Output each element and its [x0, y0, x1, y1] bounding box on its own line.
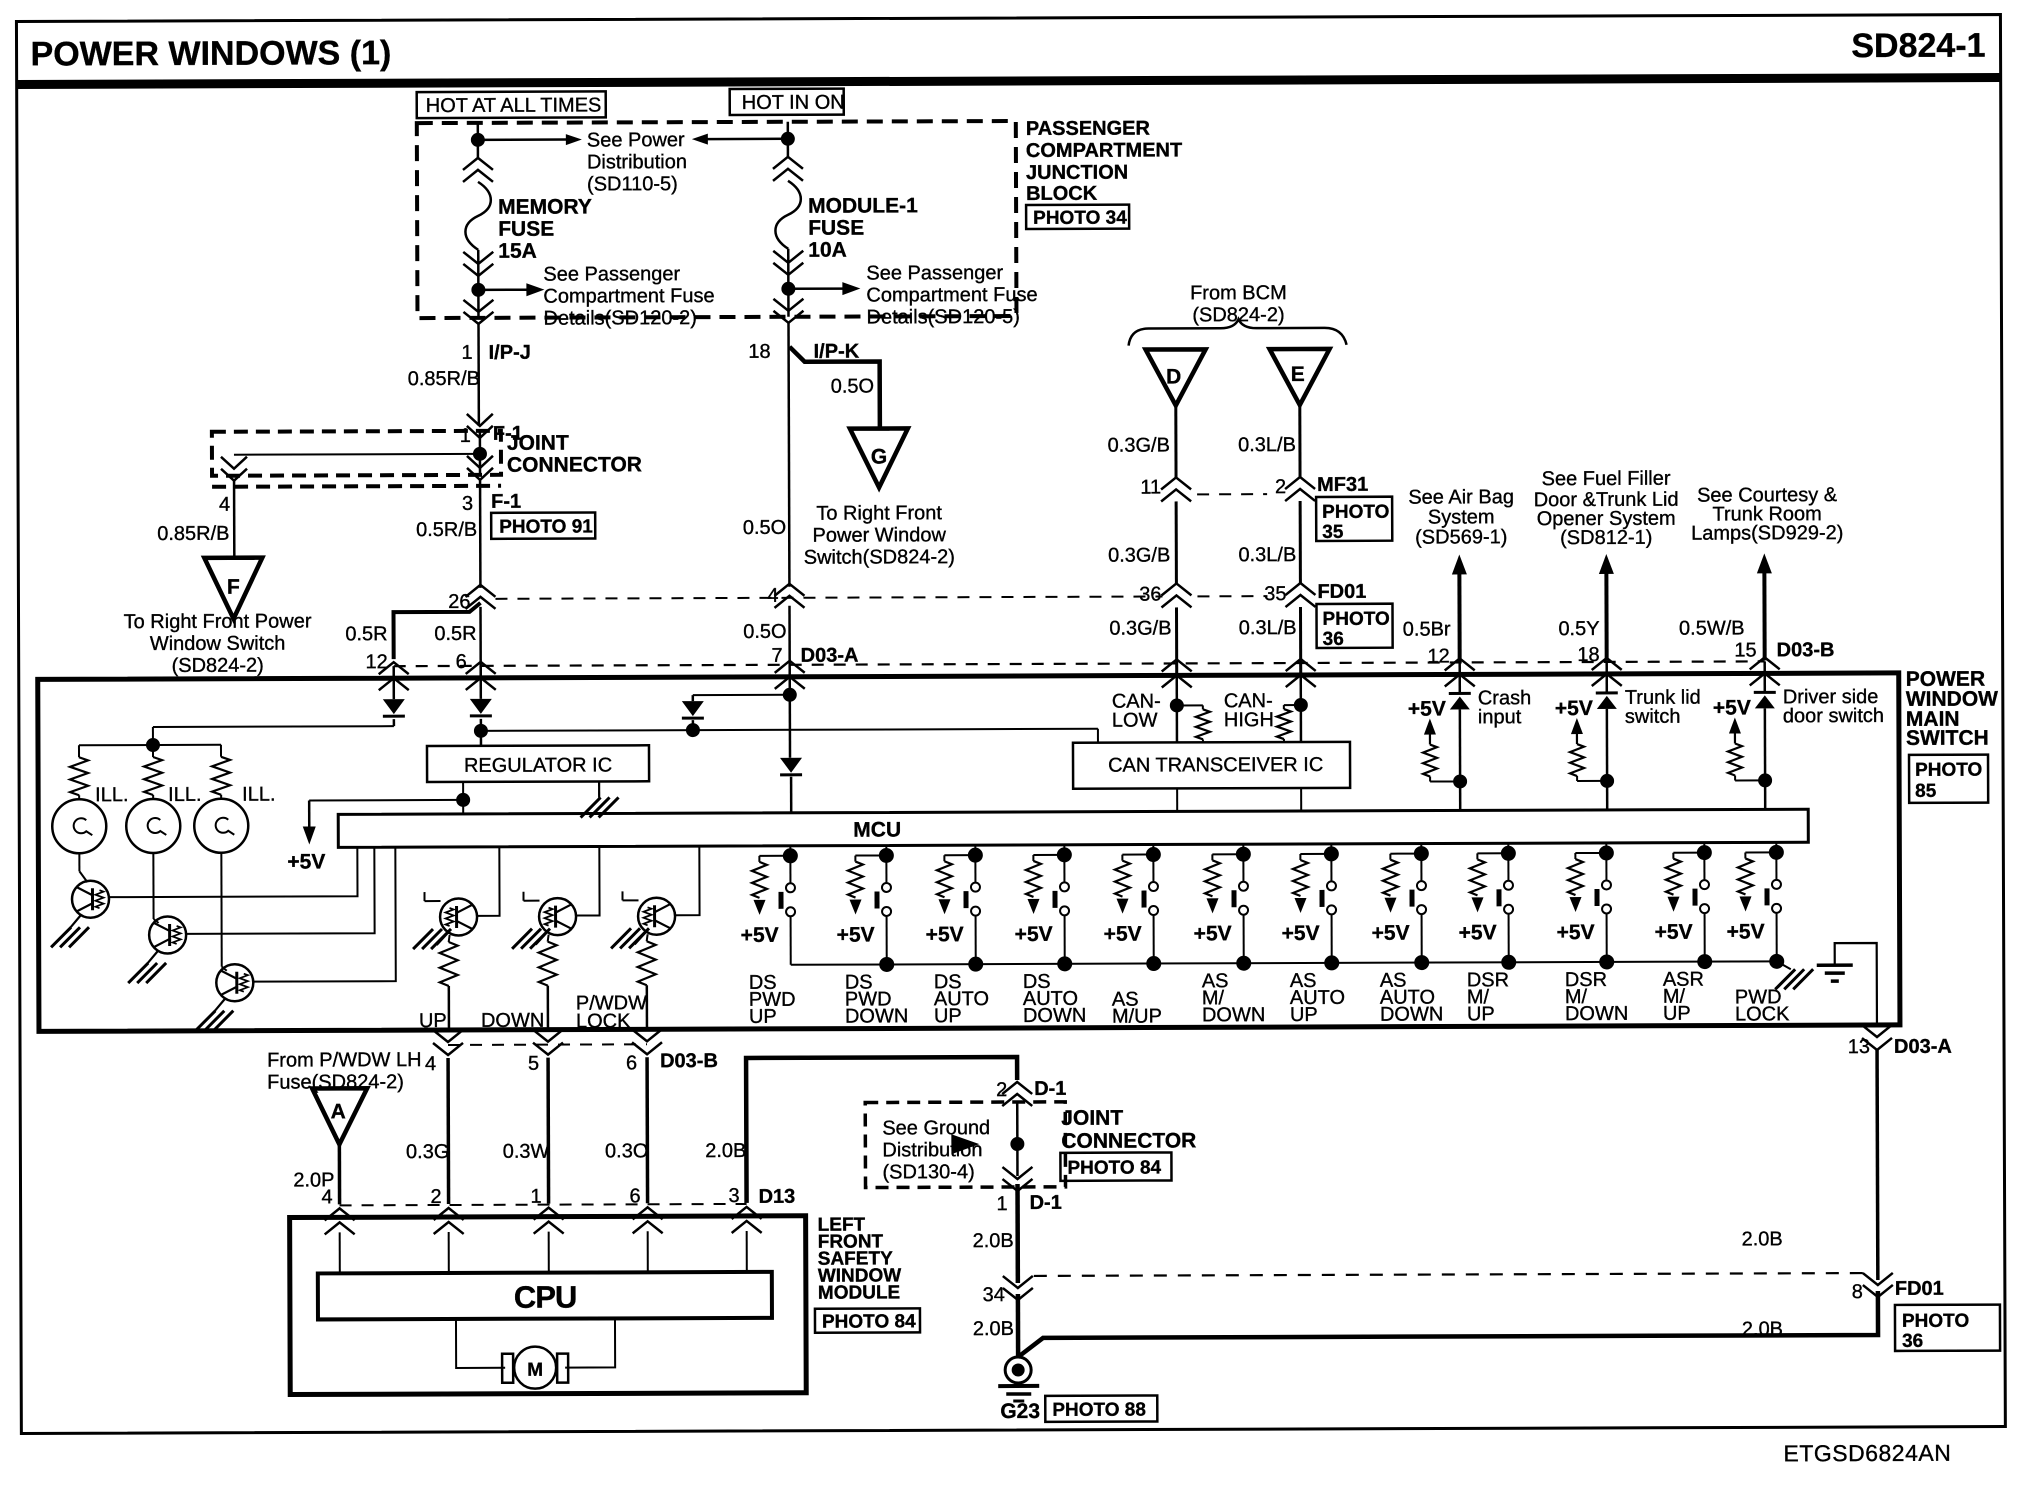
- connector chevrons above module fuse: [773, 157, 803, 181]
- svg-text:0.5O: 0.5O: [743, 621, 786, 643]
- resistor pull-down cell 8: [1390, 853, 1421, 855]
- svg-text:(SD110-5): (SD110-5): [587, 173, 678, 195]
- PHOTO 84 box module: [815, 1308, 920, 1332]
- svg-text:D03-B: D03-B: [1777, 639, 1835, 661]
- switch contact cell 4: [1063, 855, 1065, 882]
- svg-text:+5V: +5V: [837, 923, 875, 946]
- svg-text:36: 36: [1323, 629, 1344, 650]
- svg-text:CONNECTOR: CONNECTOR: [507, 453, 642, 476]
- fuse MODULE-1 FUSE 10A symbol: [775, 181, 801, 249]
- switch cell PWD LOCK wire from MCU: [1775, 842, 1777, 852]
- svg-text:LOW: LOW: [1112, 710, 1158, 732]
- connector chevrons at PCJB bottom exit I/P-J: [463, 300, 493, 324]
- svg-text:D03-A: D03-A: [801, 645, 859, 667]
- wire 0.5R main below 26: [479, 607, 482, 678]
- wire dashed MF31 row: [1197, 493, 1267, 495]
- svg-text:See Power: See Power: [587, 129, 685, 151]
- svg-text:Switch(SD824-2): Switch(SD824-2): [804, 546, 955, 569]
- MCU box: [338, 809, 1808, 847]
- connector chevrons into switch box at x=1460: [1445, 658, 1475, 686]
- svg-text:PASSENGER: PASSENGER: [1026, 118, 1151, 140]
- svg-text:POWER WINDOWS (1): POWER WINDOWS (1): [30, 34, 391, 73]
- connector chevrons pin 5 D03-B bottom: [533, 1030, 563, 1055]
- svg-text:0.3W: 0.3W: [503, 1141, 550, 1163]
- label AS AUTO UP: [1290, 970, 1345, 1026]
- switch cell DS AUTO UP wire from MCU: [974, 845, 976, 855]
- svg-text:CAN TRANSCEIVER IC: CAN TRANSCEIVER IC: [1108, 754, 1323, 777]
- ground Q6: [635, 931, 647, 944]
- label AS M/UP: [1112, 988, 1162, 1027]
- node junction dot Crash: [1453, 774, 1467, 788]
- connector chevrons joint right output pin 3: [467, 456, 493, 480]
- connector chevrons pin 13 D03-A bottom: [1862, 1025, 1892, 1050]
- svg-text:(SD569-1): (SD569-1): [1415, 526, 1507, 548]
- diode into regulator rail: [479, 666, 482, 699]
- wire regulator input pin: [480, 737, 483, 746]
- label See Passenger Compartment Fuse Details(SD120-5): [866, 262, 1037, 329]
- label From P/WDW LH Fuse(SD824-2): [267, 1049, 422, 1094]
- resistor pull-down cell 4: [1033, 854, 1064, 856]
- svg-text:G: G: [871, 445, 887, 468]
- svg-text:D-1: D-1: [1030, 1192, 1062, 1214]
- PHOTO 36 box upper: [1316, 604, 1392, 650]
- arrow up to fuel filler opener: [1599, 554, 1614, 574]
- label MODULE-1 FUSE 10A: [808, 194, 918, 261]
- resistor pull-down cell 5: [1122, 854, 1153, 856]
- node junction dot rail: [1057, 956, 1072, 971]
- label CAN-HIGH: [1224, 690, 1274, 731]
- joint connector F-1 dashed box: [212, 431, 501, 476]
- resistor pull-up Crash: [1430, 780, 1460, 782]
- node junction dot 0.5O to diode rail: [783, 688, 797, 702]
- fuse MEMORY FUSE 15A symbol: [465, 182, 491, 250]
- svg-text:+5V: +5V: [1015, 923, 1053, 946]
- diode on branch rail: [692, 695, 695, 701]
- svg-text:0.3G: 0.3G: [406, 1141, 449, 1163]
- svg-text:Compartment Fuse: Compartment Fuse: [866, 284, 1037, 307]
- svg-text:15A: 15A: [498, 240, 537, 263]
- svg-text:I/P-J: I/P-J: [489, 342, 531, 364]
- svg-text:0.5Y: 0.5Y: [1558, 618, 1599, 640]
- wire 2.0B from pin 13: [1875, 1049, 1879, 1280]
- svg-text:(SD824-2): (SD824-2): [172, 655, 264, 677]
- svg-text:1: 1: [460, 425, 471, 447]
- label JOINT CONNECTOR: [507, 431, 642, 476]
- svg-text:CONNECTOR: CONNECTOR: [1061, 1129, 1196, 1152]
- node junction dot cell 8 top: [1414, 846, 1429, 861]
- svg-text:+5V: +5V: [1555, 697, 1593, 720]
- switch contact cell 2: [885, 855, 887, 882]
- svg-text:0.3L/B: 0.3L/B: [1239, 617, 1297, 639]
- switch contact cell 6: [1242, 854, 1244, 881]
- svg-text:FUSE: FUSE: [808, 217, 864, 240]
- CPU box: [318, 1272, 772, 1320]
- wire Q3 base to MCU: [252, 847, 395, 981]
- transistor Q6 P/WDW LOCK driver: [675, 846, 699, 915]
- connector chevrons pin 4 D03-A row: [774, 584, 804, 608]
- svg-text:0.3L/B: 0.3L/B: [1238, 544, 1296, 566]
- node junction dot rail: [1324, 955, 1339, 970]
- switch contact cell 10: [1605, 853, 1607, 880]
- resistor pull-down cell 10: [1575, 852, 1606, 854]
- label See Passenger Compartment Fuse Details(SD120-2): [543, 263, 714, 330]
- switch contact cell 11: [1703, 853, 1705, 880]
- wire E 0.3L/B middle: [1299, 501, 1302, 583]
- resistor illumination 1: [78, 745, 80, 757]
- PHOTO 35 box: [1316, 497, 1392, 543]
- label To Right Front Power Window Switch(SD824-2): [804, 502, 955, 569]
- wire D 0.3G/B middle: [1175, 501, 1178, 583]
- node junction dot rail: [1599, 954, 1614, 969]
- svg-text:See Passenger: See Passenger: [866, 262, 1003, 284]
- svg-text:Compartment Fuse: Compartment Fuse: [543, 285, 714, 308]
- node junction dot rail: [1414, 955, 1429, 970]
- ground regulator IC: [598, 781, 600, 797]
- svg-text:2.0B: 2.0B: [1742, 1318, 1783, 1340]
- switch cell AS M/ DOWN wire from MCU: [1242, 844, 1244, 854]
- connector chevrons F-1 input: [467, 414, 493, 438]
- resistor pull-down cell 6: [1212, 853, 1243, 855]
- resistor pull-down cell 12: [1745, 851, 1776, 853]
- resistor Q5 output: [548, 935, 549, 942]
- pin 3 F-1 label: [462, 491, 521, 515]
- node junction dot illumination rail: [146, 738, 160, 752]
- svg-text:ILL.: ILL.: [168, 784, 201, 806]
- wire 0.3G: [446, 1058, 450, 1204]
- connector chevrons into switch box at x=481: [466, 662, 496, 690]
- svg-text:0.5W/B: 0.5W/B: [1679, 617, 1745, 639]
- wire illumination rail upper: [153, 725, 394, 728]
- node junction dot cell 10 top: [1599, 845, 1614, 860]
- svg-text:2.0B: 2.0B: [705, 1140, 746, 1162]
- svg-text:UP: UP: [419, 1010, 447, 1032]
- svg-text:Distribution: Distribution: [587, 151, 687, 173]
- svg-text:JOINT: JOINT: [1061, 1107, 1123, 1130]
- svg-text:4: 4: [425, 1053, 436, 1075]
- power window main switch box: [38, 673, 1900, 1031]
- wire below module fuse: [787, 249, 790, 317]
- connector chevrons pin 6 D03-B bottom: [632, 1029, 662, 1054]
- label Trunk lid switch: [1625, 687, 1701, 728]
- svg-text:MCU: MCU: [853, 818, 901, 841]
- label DS PWD UP: [749, 972, 796, 1028]
- svg-text:MODULE: MODULE: [818, 1282, 900, 1303]
- label POWER WINDOW MAIN SWITCH: [1906, 668, 1999, 750]
- svg-text:2: 2: [430, 1186, 441, 1208]
- svg-text:LOCK: LOCK: [576, 1010, 631, 1032]
- svg-text:D03-A: D03-A: [1894, 1036, 1952, 1058]
- wire module internal at x=745: [746, 1231, 748, 1272]
- switch contact cell 9: [1507, 853, 1509, 880]
- svg-text:35: 35: [1322, 522, 1344, 543]
- switch cell AS AUTO DOWN wire from MCU: [1420, 844, 1422, 854]
- node junction dot module fuse output: [781, 282, 795, 296]
- svg-text:4: 4: [321, 1186, 332, 1208]
- svg-text:A: A: [331, 1100, 346, 1123]
- connector chevrons pin 8 FD01: [1863, 1273, 1893, 1297]
- label PASSENGER COMPARTMENT JUNCTION BLOCK: [1026, 117, 1183, 205]
- connector chevrons joint left output pin 4: [221, 457, 247, 481]
- node junction dot Trunk lid: [1600, 774, 1614, 788]
- passenger compartment junction block dashed box: [417, 121, 1017, 318]
- connector chevrons into switch box at x=1301: [1286, 659, 1316, 687]
- node junction dot rail: [1501, 955, 1516, 970]
- svg-text:0.85R/B: 0.85R/B: [408, 368, 480, 390]
- svg-text:D: D: [1166, 365, 1181, 388]
- node junction dot rail: [879, 957, 894, 972]
- diode input Crash: [1458, 662, 1461, 693]
- connector chevrons pin 4 D03-B bottom: [433, 1030, 463, 1055]
- svg-text:0.3G/B: 0.3G/B: [1109, 617, 1171, 639]
- wire dashed D03-B row: [394, 661, 1765, 666]
- node junction dot rail: [1146, 956, 1161, 971]
- wire branch to pin 12: [393, 603, 480, 659]
- connector chevrons into module at x=745: [732, 1207, 762, 1233]
- ground Q3: [215, 998, 226, 1011]
- node junction dot joint connector F-1: [473, 447, 487, 461]
- svg-text:85: 85: [1915, 781, 1937, 802]
- svg-text:35: 35: [1264, 583, 1286, 605]
- connector chevrons pin 11 MF31: [1161, 477, 1191, 501]
- svg-text:2.0B: 2.0B: [1742, 1228, 1783, 1250]
- wire regulator +5V output pin: [462, 782, 464, 800]
- resistor pull-down cell 7: [1300, 853, 1331, 855]
- node junction dot CAN-LOW: [1170, 698, 1184, 712]
- label JOINT CONNECTOR D-1: [1061, 1106, 1196, 1152]
- PHOTO 34 box: [1026, 205, 1129, 229]
- svg-text:PHOTO: PHOTO: [1902, 1311, 1969, 1332]
- svg-text:4: 4: [767, 585, 778, 607]
- connector E triangle from BCM: [1270, 349, 1330, 405]
- wire rail to CAN transceiver: [481, 729, 1098, 731]
- svg-text:2.0B: 2.0B: [973, 1318, 1014, 1340]
- svg-text:15: 15: [1734, 639, 1756, 661]
- connector F triangle to right front power window switch: [204, 558, 262, 619]
- connector chevrons into module at x=338: [325, 1208, 355, 1234]
- connector A triangle from P/WDW LH fuse: [312, 1088, 367, 1144]
- ground rail hatch: [1777, 961, 1791, 969]
- label CAN-LOW: [1112, 690, 1161, 731]
- connector chevrons pin 35 FD01: [1285, 583, 1315, 607]
- svg-text:6: 6: [629, 1185, 640, 1207]
- svg-text:DOWN: DOWN: [1202, 1004, 1265, 1026]
- ground Q2: [148, 950, 159, 963]
- svg-text:JUNCTION: JUNCTION: [1026, 162, 1128, 184]
- label See Ground Distribution (SD130-4): [882, 1117, 990, 1183]
- svg-text:MODULE-1: MODULE-1: [808, 194, 918, 217]
- HOT AT ALL TIMES label box: [417, 91, 606, 118]
- arrow up to courtesy lamps: [1757, 553, 1772, 573]
- switch cell DS AUTO DOWN wire from MCU: [1063, 845, 1065, 855]
- label AS AUTO DOWN: [1380, 970, 1444, 1026]
- label See Power Distribution (SD110-5): [587, 129, 687, 195]
- wire Q2 base to MCU: [185, 847, 374, 934]
- wire 2.0B to D13: [746, 1057, 1018, 1203]
- svg-text:JOINT: JOINT: [507, 432, 569, 455]
- wire F-1 drop 0.5R/B: [479, 480, 482, 588]
- svg-text:From BCM: From BCM: [1190, 282, 1287, 304]
- wire CAN transceiver to MCU pin high: [1300, 788, 1302, 811]
- svg-text:+5V: +5V: [1104, 923, 1142, 946]
- node junction dot +5V rail: [456, 793, 470, 807]
- wire ground to pin 13: [1835, 943, 1877, 1025]
- label MEMORY FUSE 15A: [498, 195, 592, 262]
- wire illumination lamp rail: [79, 744, 221, 746]
- connector chevrons into switch box at x=1607: [1592, 658, 1622, 686]
- switch cell DS PWD DOWN wire from MCU: [885, 845, 887, 855]
- svg-text:0.5R/B: 0.5R/B: [416, 519, 477, 541]
- switch cell AS M/UP wire from MCU: [1152, 845, 1154, 855]
- svg-text:PHOTO: PHOTO: [1915, 760, 1982, 781]
- svg-text:HOT AT ALL TIMES: HOT AT ALL TIMES: [426, 94, 602, 117]
- wire dashed FD01 row long: [495, 596, 1162, 598]
- switch contact cell 3: [974, 855, 976, 882]
- svg-text:System: System: [1428, 506, 1495, 528]
- ground Q1: [71, 914, 82, 927]
- arrow left to See Power Distribution: [706, 138, 788, 141]
- wire +5V rail into MCU: [462, 800, 464, 814]
- svg-text:FD01: FD01: [1895, 1278, 1944, 1300]
- wire switch common rail: [791, 961, 1777, 964]
- switch contact cell 1: [789, 856, 791, 883]
- wire CPU to motor left: [456, 1319, 505, 1368]
- switch contact cell 12: [1775, 852, 1777, 879]
- pin 18 I/P-K label: [748, 341, 859, 363]
- svg-text:M: M: [527, 1360, 543, 1381]
- node junction dot cell 2 top: [879, 848, 894, 863]
- label LEFT FRONT SAFETY WINDOW MODULE: [818, 1214, 902, 1303]
- svg-text:0.3L/B: 0.3L/B: [1238, 434, 1296, 456]
- node junction dot memory feed: [471, 133, 485, 147]
- wire 0.5O to main switch: [788, 606, 791, 758]
- label To Right Front Power Window Switch (SD824-2): [124, 610, 312, 677]
- svg-text:UP: UP: [1467, 1003, 1495, 1025]
- wire CPU to motor right: [565, 1318, 615, 1367]
- label See Courtesy & Trunk Room Lamps(SD929-2): [1691, 484, 1844, 545]
- PHOTO 85 box: [1909, 755, 1988, 803]
- connector chevrons into switch box at x=394: [379, 662, 409, 690]
- svg-text:REGULATOR IC: REGULATOR IC: [464, 754, 612, 777]
- svg-text:6: 6: [626, 1052, 637, 1074]
- svg-text:5: 5: [528, 1053, 539, 1075]
- resistor pull-up Driver side: [1735, 779, 1765, 781]
- svg-text:Lamps(SD929-2): Lamps(SD929-2): [1691, 522, 1843, 545]
- resistor pull-down cell 3: [944, 854, 975, 856]
- wire 2.0B to ground G23: [1016, 1294, 1021, 1357]
- svg-text:Details(SD120-2): Details(SD120-2): [543, 307, 696, 330]
- svg-text:From P/WDW LH: From P/WDW LH: [267, 1049, 422, 1072]
- svg-text:CPU: CPU: [514, 1280, 577, 1315]
- svg-text:HIGH: HIGH: [1224, 709, 1274, 731]
- pin 2 D-1 label: [996, 1078, 1066, 1101]
- wire D 0.3G/B lower: [1175, 607, 1178, 675]
- HOT IN ON label box: [730, 89, 844, 115]
- transistor Q1 illumination driver 1: [78, 853, 80, 871]
- svg-text:FUSE: FUSE: [498, 218, 554, 241]
- svg-text:0.3G/B: 0.3G/B: [1108, 544, 1170, 566]
- diode into illumination rail left: [392, 666, 395, 699]
- svg-text:0.5R: 0.5R: [345, 623, 387, 645]
- connector chevrons into module at x=547: [534, 1208, 564, 1234]
- resistor pull-down cell 9: [1477, 852, 1508, 854]
- svg-text:DOWN: DOWN: [1380, 1004, 1443, 1026]
- svg-text:D03-B: D03-B: [660, 1050, 718, 1072]
- wire module internal at x=646: [647, 1231, 649, 1272]
- node junction dot rail: [968, 957, 983, 972]
- connector chevrons above memory fuse: [463, 158, 493, 182]
- svg-text:DOWN: DOWN: [1565, 1003, 1628, 1025]
- arrow ground distribution: [951, 1134, 979, 1154]
- svg-text:DOWN: DOWN: [845, 1005, 908, 1027]
- svg-text:PHOTO 88: PHOTO 88: [1052, 1400, 1146, 1421]
- PHOTO 91 box: [491, 512, 595, 538]
- wire module-fuse top stub: [787, 122, 790, 157]
- connector chevrons pin 1 D-1: [1002, 1167, 1032, 1191]
- brace over connectors D and E: [1128, 319, 1346, 346]
- svg-text:0.85R/B: 0.85R/B: [157, 523, 229, 545]
- svg-text:See Air Bag: See Air Bag: [1408, 486, 1514, 508]
- svg-text:Window Switch: Window Switch: [150, 633, 286, 655]
- arrow to See Passenger Compartment Fuse Details SD120-5: [788, 287, 844, 290]
- connector chevrons into switch box at x=790: [775, 661, 805, 689]
- connector chevrons into module at x=646: [633, 1207, 663, 1233]
- wire below memory fuse: [477, 250, 480, 318]
- wire 2.0B below D-1: [1015, 1184, 1020, 1283]
- svg-text:To Right Front: To Right Front: [816, 502, 942, 524]
- svg-text:(SD824-2): (SD824-2): [1192, 304, 1284, 326]
- resistor illumination 2: [152, 745, 154, 757]
- regulator IC box: [427, 745, 649, 782]
- connector chevrons into module at x=447: [434, 1208, 464, 1234]
- node junction dot module feed: [781, 132, 795, 146]
- node junction dot Driver side: [1758, 773, 1772, 787]
- svg-text:ILL.: ILL.: [242, 784, 275, 806]
- label See Air Bag System (SD569-1): [1408, 486, 1514, 548]
- svg-text:PHOTO 34: PHOTO 34: [1033, 208, 1127, 229]
- svg-text:LOCK: LOCK: [1735, 1003, 1790, 1025]
- arrow up to air bag system: [1452, 554, 1467, 574]
- motor M window motor: [502, 1347, 568, 1389]
- svg-text:MF31: MF31: [1317, 474, 1368, 496]
- ground Q5: [536, 932, 548, 945]
- node junction dot rail: [1697, 954, 1712, 969]
- svg-text:HOT IN ON: HOT IN ON: [742, 92, 845, 114]
- svg-text:D13: D13: [759, 1186, 796, 1208]
- svg-text:13: 13: [1848, 1036, 1870, 1058]
- svg-text:0.3O: 0.3O: [605, 1140, 648, 1162]
- switch contact cell 5: [1152, 855, 1154, 882]
- label PWD LOCK: [1735, 986, 1790, 1025]
- svg-text:0.5Br: 0.5Br: [1403, 618, 1451, 640]
- svg-text:UP: UP: [749, 1006, 777, 1028]
- svg-text:PHOTO 84: PHOTO 84: [1067, 1157, 1161, 1178]
- node junction dot cell 7 top: [1324, 846, 1339, 861]
- connector chevrons pin 26: [465, 585, 495, 609]
- resistor pull-down cell 2: [855, 854, 886, 856]
- svg-text:1: 1: [530, 1186, 541, 1208]
- node junction dot cell 11 top: [1697, 845, 1712, 860]
- svg-text:2: 2: [996, 1079, 1007, 1101]
- svg-text:2: 2: [1275, 476, 1286, 498]
- svg-text:MEMORY: MEMORY: [498, 195, 592, 218]
- lamp ILL 1: [52, 799, 106, 853]
- svg-text:+5V: +5V: [1372, 922, 1410, 945]
- wire module internal at x=338: [339, 1232, 341, 1273]
- connector chevrons below module fuse: [773, 251, 803, 275]
- label Driver side door switch: [1783, 686, 1884, 727]
- label DS AUTO DOWN: [1023, 971, 1087, 1027]
- connector chevrons pin 2 MF31: [1285, 477, 1315, 501]
